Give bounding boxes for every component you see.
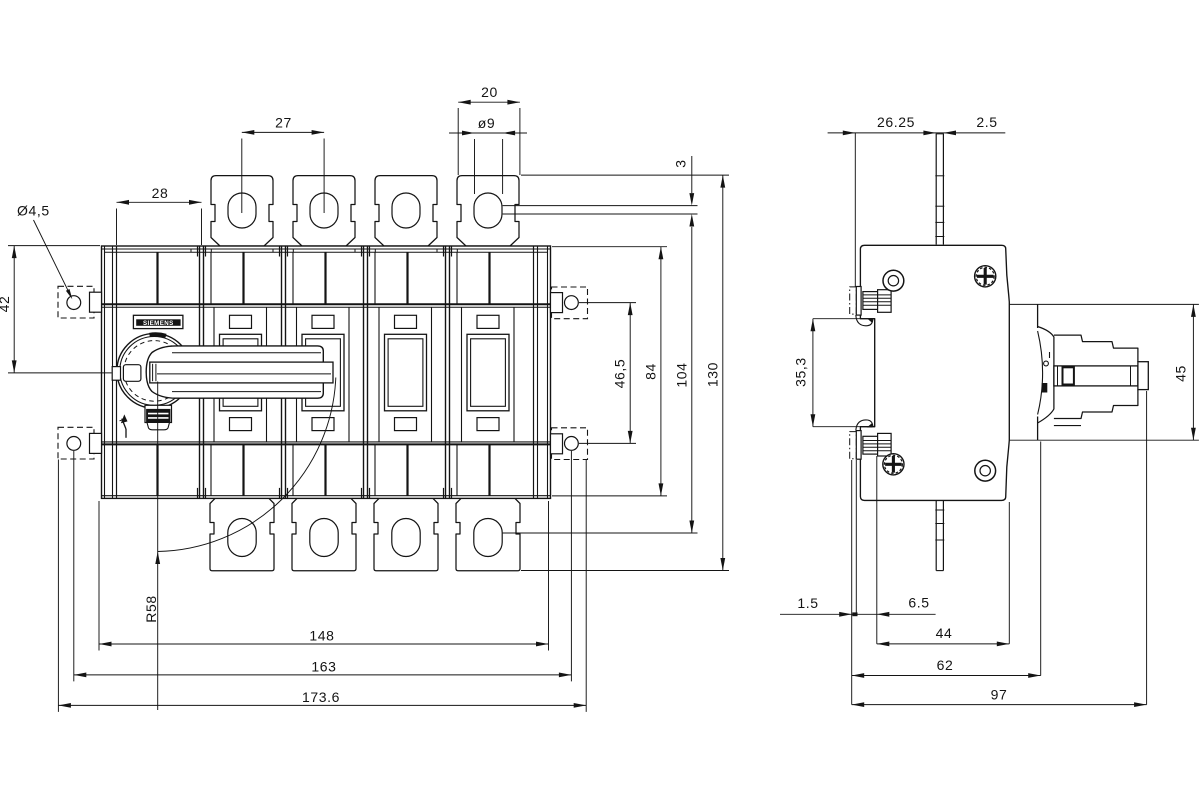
svg-text:130: 130: [705, 362, 721, 387]
pole boundary walls: [199, 246, 201, 498]
dimension 62 depth including knob: [1040, 442, 1042, 676]
front view: bottom terminal tabs with oval holes: [210, 498, 274, 570]
body right wall lines: [547, 246, 549, 498]
svg-text:42: 42: [0, 296, 12, 313]
recessed mounting face between clips: [813, 318, 875, 320]
svg-text:104: 104: [674, 362, 690, 387]
body bottom shoulder lines: [102, 441, 551, 443]
svg-text:173.6: 173.6: [302, 689, 340, 705]
svg-text:R58: R58: [143, 595, 159, 622]
mounting bracket top-left (dashed) with hole: [58, 286, 94, 318]
mounting bracket top-right (dashed) with hole: [552, 287, 588, 319]
dimension 28 first pole pitch: [116, 209, 118, 246]
phillips screw top-right: [975, 266, 996, 287]
pole face windows and vents: [213, 307, 215, 442]
body bottom edge line: [102, 495, 551, 497]
svg-text:26.25: 26.25: [877, 114, 915, 130]
dimension 163 bracket hole spacing horizontal: [73, 451, 75, 682]
svg-text:2.5: 2.5: [976, 114, 997, 130]
padlock cylinder below handle: [145, 405, 172, 422]
svg-text:97: 97: [991, 686, 1008, 702]
svg-text:148: 148: [309, 628, 334, 644]
handle lever bar side section: [1054, 366, 1138, 386]
handle lever arm: [146, 346, 323, 398]
radius R58 handle swing arc: [158, 378, 336, 552]
mid-pole rib lines in top and bottom bands: [156, 252, 158, 304]
svg-text:Ø4,5: Ø4,5: [17, 203, 50, 219]
svg-text:163: 163: [311, 658, 336, 674]
svg-text:62: 62: [937, 657, 954, 673]
svg-text:28: 28: [152, 185, 169, 201]
mounting bracket bottom-right (dashed) with hole: [552, 428, 588, 460]
body top shoulder lines: [102, 303, 551, 305]
body left wall lines: [104, 246, 106, 498]
terminal blade top: [935, 134, 937, 245]
svg-text:ø9: ø9: [478, 115, 496, 131]
svg-text:SIEMENS: SIEMENS: [143, 320, 174, 327]
DIN-rail clip top-left: [850, 287, 857, 314]
handle lever front plate: [150, 362, 333, 383]
dimension 26.25 and 2.5 blade position: [854, 133, 856, 287]
svg-text:84: 84: [643, 363, 659, 380]
switch position indicator symbol: [125, 429, 127, 438]
dimension 148 body width: [98, 501, 100, 651]
mounting bracket bottom-left (dashed) with hole: [58, 427, 94, 459]
dimension 3 terminal thickness: [503, 205, 698, 207]
rotary handle side profile: [1037, 304, 1039, 328]
front view: top terminal tabs with oval holes: [211, 176, 273, 246]
dimension 45 handle region height: [1009, 303, 1199, 305]
rotary handle base circle: [117, 334, 192, 409]
dimension 44 body depth to front: [1008, 502, 1010, 644]
dimension diameter 9 of terminal hole: [474, 139, 476, 194]
dimension 35,3 clip spacing: [812, 319, 814, 427]
handle knob markings: [1042, 383, 1048, 393]
dimension 84 body height: [552, 246, 667, 248]
dimension 1.5 and 6.5 clip offsets: [851, 460, 853, 705]
svg-text:6.5: 6.5: [908, 595, 929, 611]
SIEMENS logo label: [133, 315, 183, 328]
dimension 42 handle centre from body top: [8, 245, 100, 247]
dimension 173.6 overall width: [57, 460, 59, 712]
dimension 27 between first two terminal holes: [241, 139, 243, 214]
dimension 104 to bottom hole centre: [503, 532, 698, 534]
svg-text:46,5: 46,5: [612, 359, 628, 389]
DIN-rail clip bottom-left: [850, 432, 857, 459]
svg-text:45: 45: [1172, 365, 1188, 382]
dimension 97 overall depth: [1146, 391, 1148, 705]
svg-text:20: 20: [481, 84, 498, 100]
svg-text:44: 44: [936, 625, 953, 641]
terminal blade bottom: [935, 500, 937, 570]
dimension 20 terminal tab width: [457, 108, 459, 175]
svg-text:27: 27: [275, 114, 292, 130]
svg-text:3: 3: [673, 159, 689, 167]
svg-text:35,3: 35,3: [792, 357, 808, 387]
handle shaft end at left: [112, 367, 120, 381]
side view: main body outline: [860, 245, 1009, 500]
screw head top-left: [883, 270, 904, 291]
dimension 46,5 bracket hole spacing: [579, 302, 636, 304]
screw head bottom-right: [975, 460, 996, 481]
dimension 130 overall height: [521, 174, 729, 176]
phillips screw bottom-left: [883, 454, 904, 475]
body top edge lines: [102, 248, 551, 250]
svg-text:1.5: 1.5: [797, 595, 818, 611]
front view: molded case body outline: [102, 246, 551, 498]
